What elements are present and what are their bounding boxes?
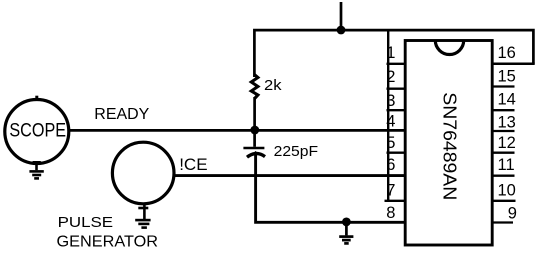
scope probe circle SCOPE	[5, 100, 69, 164]
svg-text:!CE: !CE	[179, 155, 207, 174]
svg-text:5: 5	[386, 134, 395, 152]
svg-text:READY: READY	[94, 106, 149, 123]
pulse generator circle	[112, 142, 174, 204]
wire capacitor bottom lead to ground rail	[256, 153, 406, 223]
svg-text:14: 14	[498, 91, 516, 109]
svg-text:7: 7	[386, 181, 395, 199]
ground symbol under chip rail	[339, 222, 353, 243]
svg-text:3: 3	[386, 92, 395, 110]
svg-text:SCOPE: SCOPE	[9, 119, 66, 141]
pin separator 12/11	[491, 152, 515, 154]
wire resistor to READY junction	[253, 97, 256, 147]
pin separator 10/9	[491, 200, 516, 202]
pin 16 box bottom	[491, 62, 535, 65]
IC notch	[435, 40, 463, 54]
pin 9 bottom line	[491, 221, 513, 223]
svg-text:2: 2	[386, 68, 395, 86]
svg-text:225pF: 225pF	[274, 143, 319, 160]
node ground junction on ground rail	[342, 218, 351, 227]
svg-text:2k: 2k	[264, 77, 282, 94]
svg-text:6: 6	[386, 156, 395, 174]
svg-text:11: 11	[498, 156, 515, 174]
capacitor 225pF top plate	[243, 147, 264, 150]
svg-text:15: 15	[498, 68, 516, 86]
capacitor center bump	[252, 151, 260, 155]
pin separator 14/13	[491, 109, 515, 111]
svg-text:1: 1	[386, 44, 395, 62]
svg-text:12: 12	[498, 134, 516, 152]
pin separator 2/3	[387, 88, 406, 90]
pin separator 13/12	[491, 130, 515, 132]
pin separator 5/6	[387, 152, 406, 154]
svg-text:16: 16	[498, 44, 516, 62]
ground under SCOPE	[29, 162, 43, 178]
left pin column outer line	[387, 30, 389, 201]
svg-text:13: 13	[498, 114, 516, 132]
wire power rail top	[254, 30, 533, 77]
pin separator 11/10	[491, 175, 515, 177]
capacitor 225pF curved bottom plate	[247, 154, 265, 158]
svg-text:10: 10	[498, 181, 516, 199]
wire READY net	[69, 129, 406, 132]
pin separator 3/4	[387, 109, 406, 111]
pin separator 15/14	[491, 85, 515, 87]
node power junction	[337, 26, 346, 35]
wire power stub to top edge	[340, 2, 343, 30]
ground under pulse generator	[135, 203, 150, 228]
svg-text:4: 4	[386, 113, 395, 131]
resistor 2k	[251, 75, 258, 99]
svg-text:8: 8	[386, 204, 395, 222]
svg-text:GENERATOR: GENERATOR	[57, 234, 159, 251]
scope top terminal tick	[35, 96, 38, 100]
op IC U1 SN76489AN body	[405, 41, 492, 246]
pin separator 7/8	[385, 200, 406, 202]
node READY capacitor junction	[250, 126, 259, 135]
svg-text:9: 9	[508, 205, 517, 223]
svg-text:SN76489AN: SN76489AN	[440, 92, 460, 200]
svg-text:PULSE: PULSE	[58, 214, 114, 231]
wire !CE net	[175, 174, 406, 177]
pin separator 1/2	[387, 63, 406, 65]
